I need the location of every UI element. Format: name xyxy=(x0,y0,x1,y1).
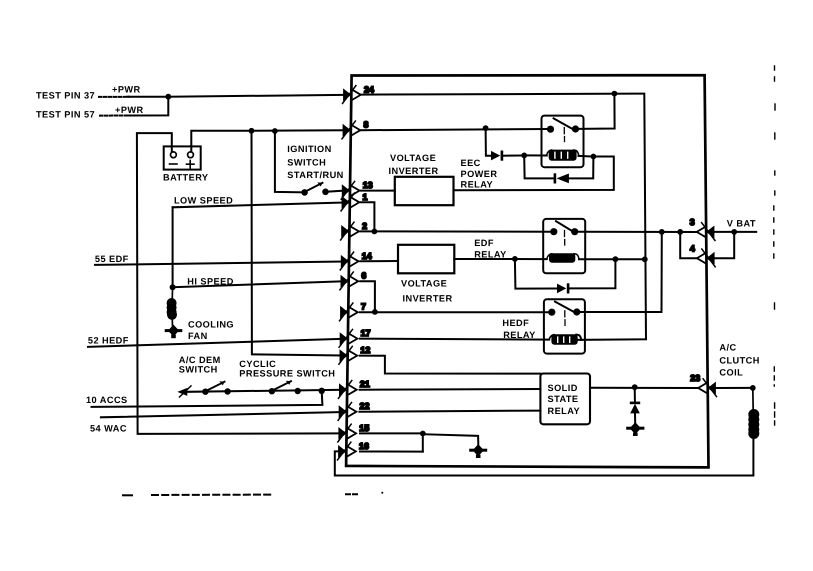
svg-text:STATE: STATE xyxy=(548,394,579,404)
svg-text:SWITCH: SWITCH xyxy=(287,157,326,167)
svg-text:TEST PIN 37: TEST PIN 37 xyxy=(36,90,95,100)
relay K2 EDF relay xyxy=(543,219,585,273)
pin 14 connector symbol xyxy=(340,252,358,270)
pin 3 connector symbol xyxy=(697,223,715,241)
wire TEST PIN 37 +PWR to junction xyxy=(99,96,129,98)
svg-text:POWER: POWER xyxy=(461,169,498,179)
svg-text:BATTERY: BATTERY xyxy=(163,173,209,183)
wire ground branch xyxy=(423,434,479,444)
node junction ignition feed xyxy=(272,128,278,134)
node junction pin8/diode branch xyxy=(483,125,489,131)
svg-text:TEST PIN 57: TEST PIN 57 xyxy=(36,110,95,120)
relay K1 case xyxy=(542,116,584,168)
node junction pin6/pin7 xyxy=(372,309,378,315)
wire battery positive to pin 8 line xyxy=(191,130,343,151)
svg-text:V BAT: V BAT xyxy=(727,219,756,229)
relay K2 switch blade xyxy=(556,221,573,231)
pin 16 connector symbol xyxy=(338,442,356,460)
pin 2 connector symbol xyxy=(341,222,359,240)
wire ignition switch branch xyxy=(275,131,305,192)
svg-text:23: 23 xyxy=(690,373,700,383)
node junction SSR output / clamp diode xyxy=(632,384,638,390)
wire pin 22 to solid state relay xyxy=(359,411,540,412)
node junction EDF out / pin4 loop xyxy=(677,229,683,235)
node junction battery+/VPWR rail xyxy=(249,128,255,134)
battery B1 symbol xyxy=(164,146,201,169)
svg-text:+PWR: +PWR xyxy=(115,105,144,115)
box U3 voltage inverter (lower) xyxy=(398,245,454,273)
svg-text:INVERTER: INVERTER xyxy=(389,166,439,176)
battery plus mark xyxy=(187,160,195,168)
node junction U3 out / flyback xyxy=(512,256,518,262)
wire battery negative to ground rail down to pin 15 xyxy=(137,133,339,434)
node junction EEC coil left xyxy=(521,153,527,159)
wire pin 13 into inverter U2 xyxy=(361,190,395,192)
pin 23 connector symbol xyxy=(698,379,716,397)
svg-text:HI SPEED: HI SPEED xyxy=(187,276,234,286)
scan artifact marks right margin xyxy=(774,66,775,425)
svg-text:COIL: COIL xyxy=(719,368,743,378)
diode CR3 EDF relay clamp xyxy=(557,283,569,293)
node junction EDF flyback right xyxy=(613,256,619,262)
relay K3 actuator dashed link xyxy=(564,311,566,326)
relay K1 contact left xyxy=(547,126,554,133)
battery negative terminal xyxy=(171,152,177,158)
node junction pin24 rail / EDF coil line xyxy=(642,256,648,262)
relay K3 HEDF relay xyxy=(544,299,585,353)
switch S1 blade xyxy=(307,183,323,191)
svg-text:22: 22 xyxy=(360,401,370,411)
relay K3 contact left xyxy=(548,309,555,316)
svg-text:CLUTCH: CLUTCH xyxy=(719,355,759,365)
pin 12 connector symbol xyxy=(339,346,357,364)
battery positive terminal xyxy=(188,152,194,158)
wire LOW SPEED to pin 1 xyxy=(173,203,344,208)
svg-text:SWITCH: SWITCH xyxy=(179,364,218,374)
svg-text:A/C: A/C xyxy=(719,343,736,353)
wire pin 2 to EDF relay contact xyxy=(360,230,550,232)
pin 21 connector symbol xyxy=(338,381,356,399)
wire low speed vertical to fan node xyxy=(172,207,174,287)
wire VPWR rail down to pin 12 xyxy=(252,131,344,356)
node junction test-pin wires xyxy=(165,94,171,100)
wire pin15/pin16 tie vertical xyxy=(422,434,424,452)
wire pin 8 to EEC relay contact xyxy=(361,129,548,130)
relay K3 case xyxy=(544,299,585,353)
node junction cooling fan xyxy=(170,284,176,290)
box U2 voltage inverter (upper) xyxy=(395,177,454,205)
svg-text:START/RUN: START/RUN xyxy=(287,170,343,180)
ground clamp diode xyxy=(626,422,644,436)
pin 13 connector symbol xyxy=(341,181,359,199)
svg-text:15: 15 xyxy=(359,423,369,433)
relay K1 coil xyxy=(549,150,577,161)
wire pin 15 to ground tie xyxy=(360,432,420,434)
pin 24 connector symbol xyxy=(343,86,361,104)
node junction EDF out / HEDF contact rail xyxy=(659,229,665,235)
wire HI SPEED to pin 6 xyxy=(173,281,344,287)
svg-text:14: 14 xyxy=(362,251,372,261)
pin 4 connector symbol xyxy=(697,249,715,267)
diode CR4 A/C clutch clamp to ground xyxy=(630,387,640,424)
wire EEC flyback loop xyxy=(524,155,593,178)
battery case xyxy=(164,146,201,169)
wire pin 23 to A/C clutch coil xyxy=(716,387,750,389)
svg-text:16: 16 xyxy=(359,441,369,451)
wire EEC relay contact to pin24 rail xyxy=(579,94,615,129)
wire ignition switch to pin 13 xyxy=(326,191,344,192)
relay K3 coil xyxy=(551,334,577,345)
svg-text:3: 3 xyxy=(690,217,695,227)
EEC processor box U1 outline xyxy=(346,75,708,467)
svg-text:10 ACCS: 10 ACCS xyxy=(86,395,128,405)
svg-text:VOLTAGE: VOLTAGE xyxy=(390,153,436,163)
svg-text:RELAY: RELAY xyxy=(503,330,536,340)
ground cooling fan xyxy=(165,325,183,339)
wire pin 12 to solid state relay top xyxy=(360,356,541,374)
wire pin 14 into inverter U3 xyxy=(360,260,398,262)
wire pin 16 outside to A/C clutch return xyxy=(335,440,754,476)
relay K2 coil xyxy=(549,253,575,263)
svg-text:1: 1 xyxy=(363,192,368,202)
svg-text:INVERTER: INVERTER xyxy=(403,293,453,303)
svg-text:24: 24 xyxy=(364,84,374,94)
svg-text:52 HEDF: 52 HEDF xyxy=(88,336,129,346)
svg-text:21: 21 xyxy=(360,379,370,389)
svg-text:HEDF: HEDF xyxy=(502,318,529,328)
svg-text:VOLTAGE: VOLTAGE xyxy=(401,279,447,289)
switch S1 contact right xyxy=(322,189,329,196)
wire TEST PIN 57 +PWR up to junction xyxy=(100,115,130,117)
wire EEC coil right to voltage inverter output xyxy=(454,157,614,191)
svg-text:EDF: EDF xyxy=(474,238,494,248)
wire pin 7 to HEDF relay contact xyxy=(360,311,548,313)
relay K3 switch blade xyxy=(555,302,573,312)
node junction V BAT feed xyxy=(731,229,737,235)
relay K1 actuator dashed link xyxy=(563,128,565,142)
pin 6 connector symbol xyxy=(340,272,358,290)
wire EEC coil left lead xyxy=(524,154,547,156)
wire pin 21 to solid state relay xyxy=(360,388,541,391)
inductor L1 A/C clutch coil xyxy=(748,388,759,440)
box U4 solid state relay xyxy=(540,374,590,425)
battery minus mark xyxy=(170,163,178,165)
wire EDF switch out to pin 3 xyxy=(578,231,697,233)
relay K1 contact right xyxy=(572,125,579,132)
wire pin 17 to HEDF coil xyxy=(360,339,549,340)
relay K1 EEC power relay xyxy=(524,116,591,168)
svg-text:PRESSURE SWITCH: PRESSURE SWITCH xyxy=(239,368,335,378)
svg-text:12: 12 xyxy=(360,345,370,355)
relay K3 contact right xyxy=(573,308,580,315)
svg-text:8: 8 xyxy=(364,120,369,130)
wire V BAT down to pin 4 xyxy=(715,232,735,258)
diode CR1 EEC coil feed xyxy=(491,151,503,161)
wire pin8 branch down to diode CR1 xyxy=(486,128,491,156)
wire pin 24 rail across top and down to HEDF coil xyxy=(361,94,646,340)
wire pin 16 inside xyxy=(360,451,423,453)
svg-text:+PWR: +PWR xyxy=(112,84,141,94)
svg-text:RELAY: RELAY xyxy=(461,180,494,190)
svg-text:54 WAC: 54 WAC xyxy=(90,424,127,434)
pin 7 connector symbol xyxy=(340,303,358,321)
switch S2 A/C demand switch + S3 cyclic pressure switch chain to pin 21 xyxy=(177,381,343,397)
node junction A/C clutch coil top xyxy=(750,385,756,391)
wire EDF flyback loop xyxy=(515,259,616,289)
diode CR2 EEC relay clamp xyxy=(554,173,569,183)
wire 54 WAC to pin 22 xyxy=(101,412,344,417)
wire pin 4 inside loop up to pin 3 line xyxy=(680,232,697,258)
svg-text:FAN: FAN xyxy=(188,331,208,341)
inductor M1 cooling fan motor winding xyxy=(167,287,177,326)
svg-text:SOLID: SOLID xyxy=(548,383,578,393)
svg-text:13: 13 xyxy=(363,180,373,190)
pin connector symbols xyxy=(338,84,717,460)
svg-text:RELAY: RELAY xyxy=(474,250,507,260)
pin 22 connector symbol xyxy=(338,403,356,421)
wire 52 HEDF to pin 17 xyxy=(88,339,344,347)
relay K2 actuator dashed link xyxy=(564,231,566,246)
wire pin 1 down to pin 2 line xyxy=(361,202,375,231)
switch S1 ignition switch start/run xyxy=(301,182,329,195)
pin 17 connector symbol xyxy=(339,329,357,347)
svg-text:LOW SPEED: LOW SPEED xyxy=(174,195,233,205)
pin 8 connector symbol xyxy=(342,121,360,139)
wire V BAT to pin 3 xyxy=(714,231,756,233)
node junction pin1/pin2 xyxy=(372,229,378,235)
switch S1 contact left xyxy=(301,189,308,196)
svg-text:17: 17 xyxy=(361,328,371,338)
pin 15 connector symbol xyxy=(338,424,356,442)
ground pin15/16 case ground xyxy=(469,444,487,458)
wire HEDF switch out up to EDF out rail xyxy=(580,232,661,312)
svg-text:EEC: EEC xyxy=(461,158,481,168)
svg-text:RELAY: RELAY xyxy=(548,406,581,416)
node junction pin24/EEC contact feed xyxy=(612,91,618,97)
dashed reference line bottom left xyxy=(123,494,132,496)
pin 1 connector symbol xyxy=(341,193,359,211)
wire inverter U3 output to EDF coil xyxy=(454,258,547,260)
svg-text:7: 7 xyxy=(361,302,366,312)
svg-text:COOLING: COOLING xyxy=(188,319,234,329)
wire pin 6 down to pin 7 line xyxy=(360,281,375,312)
svg-text:2: 2 xyxy=(362,221,367,231)
relay K1 switch blade xyxy=(554,118,572,128)
wire SSR output to pin 23 xyxy=(590,387,698,389)
wire EDF coil right segment xyxy=(579,258,645,260)
relay K2 case xyxy=(543,219,585,273)
svg-text:4: 4 xyxy=(690,243,695,253)
svg-text:6: 6 xyxy=(361,271,366,281)
svg-text:55 EDF: 55 EDF xyxy=(95,254,129,264)
wire diode CR1 to EEC coil xyxy=(503,155,521,157)
wire 10 ACCS up to switch chain xyxy=(92,391,323,407)
wire EEC coil right lead xyxy=(579,155,591,158)
wire 55 EDF to pin 14 xyxy=(95,262,344,265)
svg-text:IGNITION: IGNITION xyxy=(287,144,331,154)
relay K2 contact right xyxy=(571,228,578,235)
node junction EEC coil right xyxy=(591,154,597,160)
relay K2 contact left xyxy=(550,228,557,235)
node junction pin15 ground tie xyxy=(420,431,426,437)
